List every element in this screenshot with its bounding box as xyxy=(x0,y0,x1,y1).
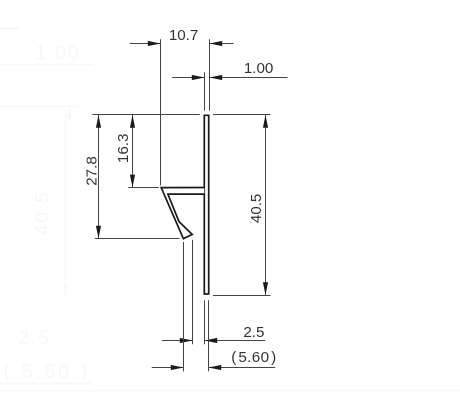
dimension (5.60) dimension lines xyxy=(152,367,276,369)
dimension 1.00 dimension lines xyxy=(172,77,287,79)
dimension 27.8 arrowheads xyxy=(96,115,101,239)
ghost dimension line under 1.00 xyxy=(0,64,93,66)
svg-text:1.00: 1.00 xyxy=(244,60,274,77)
dimension 1.00 extension line left xyxy=(204,72,206,110)
svg-text:( 5.60 ): ( 5.60 ) xyxy=(3,361,90,383)
dimension 10.7 extension line left xyxy=(160,39,162,185)
svg-text:10.7: 10.7 xyxy=(169,27,199,44)
ghost extension line with up arrow xyxy=(0,107,79,120)
dimension 10.7 dimension lines xyxy=(130,43,234,45)
dimension 2.5 dimension lines xyxy=(162,340,265,342)
ghost text 2.5 xyxy=(18,328,50,349)
ghost text 40.5 rotated xyxy=(33,190,54,235)
dimension 10.7 text xyxy=(169,27,199,44)
dimension 16.3 text xyxy=(115,134,132,164)
ghost line top-left xyxy=(0,28,18,30)
ghost text 1.00 xyxy=(36,43,81,64)
dimension 40.5 text xyxy=(248,194,265,224)
dimension 2.5 arrowheads xyxy=(180,338,217,343)
svg-text:1.00: 1.00 xyxy=(36,43,81,64)
dimension 10.7 extension line right xyxy=(209,39,211,110)
dimension (5.60) text xyxy=(231,349,276,366)
dimension (5.60) extension line right from wall right face xyxy=(208,300,210,371)
dimension 16.3 bottom extension line xyxy=(128,187,159,189)
profile flap (angled wiper blade with wedge foot) xyxy=(161,188,204,239)
svg-text:40.5: 40.5 xyxy=(33,190,54,235)
dimension 10.7 arrowheads xyxy=(148,41,222,46)
dimension 40.5 arrowheads xyxy=(263,115,268,295)
svg-text:( 5.60 ): ( 5.60 ) xyxy=(231,349,276,366)
dimension 2.5 extension line right from wall left face xyxy=(204,300,206,344)
svg-text:2.5: 2.5 xyxy=(243,324,264,341)
dimension 1.00 text xyxy=(244,60,274,77)
svg-text:2.5: 2.5 xyxy=(18,328,50,349)
dimension 40.5 dimension line xyxy=(265,115,267,295)
ghost text (5.60) xyxy=(3,361,90,383)
dimension 40.5 bottom extension line xyxy=(213,295,270,297)
profile wall (vertical rectangle of gasket) xyxy=(204,115,208,294)
dimension 2.5 extension line left from flap foot xyxy=(192,240,194,344)
top extension line at wall top xyxy=(92,114,270,116)
dimension 2.5 text xyxy=(243,324,264,341)
dimension 1.00 arrowheads xyxy=(192,75,222,80)
dimension 27.8 bottom extension line xyxy=(95,238,180,240)
svg-text:16.3: 16.3 xyxy=(115,134,132,164)
dimension (5.60) extension line left from flap tip xyxy=(183,242,185,372)
ghost full-width baseline xyxy=(0,390,460,392)
dimension 27.8 dimension line xyxy=(98,115,100,239)
dimension (5.60) arrowheads xyxy=(171,365,221,370)
dimension 27.8 text xyxy=(84,156,101,186)
dimension 16.3 dimension line xyxy=(132,115,134,187)
ghost vertical dimension line of 40.5 xyxy=(63,113,68,297)
ghost dimension line under (5.60) xyxy=(0,383,91,385)
svg-text:27.8: 27.8 xyxy=(84,156,101,186)
dimension 16.3 arrowheads xyxy=(130,115,135,187)
svg-text:40.5: 40.5 xyxy=(248,194,265,224)
